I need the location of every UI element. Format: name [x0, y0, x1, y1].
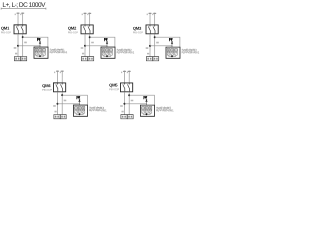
- junction on L+ wire: [84, 45, 86, 47]
- wire label 3: [82, 53, 84, 55]
- wire label 2: [156, 42, 159, 44]
- wire L+ from bus to QM1: [17, 13, 19, 25]
- pin label 1: [82, 14, 83, 16]
- pin label 3: [127, 72, 128, 74]
- SPD module 2: [78, 107, 81, 110]
- terminal connector XC5b: [127, 115, 133, 119]
- junction on L- wire: [154, 36, 156, 38]
- surge protective device FV2 box: [101, 47, 115, 58]
- QM4 pole 2 blade: [60, 83, 62, 92]
- wire L- from bus to QM2: [89, 13, 91, 25]
- PE arrow to earth: [39, 41, 41, 43]
- svg-text:QM3: QM3: [133, 26, 142, 31]
- terminal connector XC1a: [14, 57, 20, 61]
- disconnector QM3 box: [146, 25, 158, 34]
- wire L- below QM2: [89, 34, 91, 57]
- SPD module 3: [175, 49, 178, 52]
- svg-text:P80-D2P: P80-D2P: [1, 31, 11, 34]
- SPD common bar: [169, 55, 177, 57]
- bus tap tick L+ (QM2): [84, 12, 87, 14]
- wire label 1: [53, 105, 56, 107]
- junction on L- wire: [61, 94, 63, 96]
- surge protective device FV3 box: [166, 47, 180, 58]
- branch wire L+ to SPD: [124, 103, 146, 105]
- wire L+ below QM3: [149, 34, 151, 57]
- wire L- from bus to QM4: [61, 71, 63, 83]
- QM4 pole 1 blade: [56, 83, 58, 92]
- bus tap tick L+ (QM1): [17, 12, 20, 14]
- QM3 pole 2 blade: [153, 25, 155, 34]
- svg-text:QM1: QM1: [1, 26, 10, 31]
- junction on L- wire: [89, 36, 91, 38]
- wire L+ from bus to QM2: [84, 13, 86, 25]
- branch wire L- to SPD: [90, 37, 115, 47]
- wire label 1: [81, 47, 84, 49]
- junction on L+ wire: [56, 103, 58, 105]
- terminal connector XC3a: [146, 57, 152, 61]
- busbar bracket: [1, 8, 46, 10]
- disconnector QM1 box: [14, 25, 26, 34]
- surge protective device FV1 box: [34, 47, 48, 58]
- pin label 1: [147, 14, 148, 16]
- terminal connector XC4a: [54, 115, 60, 119]
- PE arrow to earth: [106, 41, 108, 43]
- surge protective device FV4 box: [73, 105, 87, 116]
- bus tap tick L- (QM1): [21, 12, 24, 14]
- svg-text:P80-D2P: P80-D2P: [42, 89, 52, 92]
- SPD module 2: [145, 107, 148, 110]
- SPD earth junction: [79, 113, 81, 115]
- QM5 pole 1 blade: [123, 83, 125, 92]
- SPD common bar: [76, 113, 84, 115]
- svg-text:FLP-PV550 V/3S 1: FLP-PV550 V/3S 1: [182, 50, 200, 54]
- junction on L- wire: [22, 36, 24, 38]
- terminal connector XC2a: [81, 57, 87, 61]
- terminal connector XC4b: [60, 115, 66, 119]
- SPD module 1: [35, 49, 38, 52]
- wire L- from bus to QM1: [22, 13, 24, 25]
- SPD common bar: [37, 55, 45, 57]
- pin label 1: [54, 72, 55, 74]
- SPD module 3: [110, 49, 113, 52]
- bus tap tick L+ (QM5): [123, 70, 126, 72]
- QM1 pole 2 blade: [21, 25, 23, 34]
- SPD module 3: [82, 107, 85, 110]
- wire label 2: [131, 100, 134, 102]
- pin label 1: [15, 14, 16, 16]
- junction on L- wire: [128, 94, 130, 96]
- terminal connector XC2b: [88, 57, 94, 61]
- PE lead: [145, 102, 147, 106]
- svg-text:P80-D2P: P80-D2P: [109, 88, 119, 91]
- wire L- below QM4: [61, 92, 63, 115]
- SPD module 3: [149, 107, 152, 110]
- SPD common bar: [104, 55, 112, 57]
- bus tap tick L- (QM4): [61, 70, 64, 72]
- PE lead: [106, 44, 108, 48]
- bus tap tick L- (QM2): [88, 12, 91, 14]
- wire L+ from bus to QM4: [56, 71, 58, 83]
- SPD earth junction: [106, 55, 108, 57]
- branch wire L- to SPD: [62, 95, 87, 105]
- wire label 3: [121, 111, 123, 113]
- branch wire L+ to SPD: [150, 45, 172, 47]
- branch wire L+ to SPD: [18, 45, 40, 47]
- QM3 pole 1 blade: [148, 25, 150, 34]
- junction on L+ wire: [149, 45, 151, 47]
- wire L+ below QM4: [56, 92, 58, 115]
- disconnector QM5 box: [120, 83, 132, 92]
- SPD module 1: [167, 49, 170, 52]
- SPD module 1: [142, 107, 145, 110]
- SPD module 2: [171, 49, 174, 52]
- bus tap tick L- (QM5): [128, 70, 131, 72]
- svg-text:QM5: QM5: [109, 83, 118, 88]
- SPD earth junction: [146, 113, 148, 115]
- PE label: [144, 96, 147, 99]
- wire L+ below QM1: [17, 34, 19, 57]
- svg-text:P80-D2P: P80-D2P: [68, 31, 78, 34]
- branch wire L- to SPD: [129, 95, 154, 105]
- branch wire L+ to SPD: [85, 45, 107, 47]
- SPD module 1: [75, 107, 78, 110]
- wire label 1: [14, 47, 17, 49]
- PE lead: [171, 44, 173, 48]
- SPD module 2: [106, 49, 109, 52]
- SPD earth junction: [171, 55, 173, 57]
- branch wire L- to SPD: [23, 37, 48, 47]
- QM2 pole 1 blade: [83, 25, 85, 34]
- PE arrow to earth: [171, 41, 173, 43]
- svg-text:FLP-PV550 V/3S 1: FLP-PV550 V/3S 1: [89, 108, 107, 112]
- disconnector QM2 box: [81, 25, 93, 34]
- PE lead: [39, 43, 41, 47]
- terminal connector XC3b: [153, 57, 159, 61]
- wire label 3: [15, 53, 17, 55]
- wire L- from bus to QM5: [128, 71, 130, 83]
- bus tap tick L+ (QM4): [56, 70, 59, 72]
- wire L- below QM1: [22, 34, 24, 57]
- wire label 3: [54, 111, 56, 113]
- svg-text:QM2: QM2: [68, 26, 77, 31]
- wire label 3: [147, 53, 149, 55]
- wire L- below QM3: [154, 34, 156, 57]
- PE lead: [78, 101, 80, 105]
- PE arrow to earth: [78, 99, 80, 101]
- svg-text:FLP-PV550 V/3S 1: FLP-PV550 V/3S 1: [156, 108, 174, 112]
- surge protective device FV5 box: [140, 105, 154, 116]
- wire L- below QM5: [128, 92, 130, 115]
- QM5 pole 2 blade: [127, 83, 129, 92]
- QM2 pole 2 blade: [88, 25, 90, 34]
- svg-text:FLP-PV550 V/3S 1: FLP-PV550 V/3S 1: [50, 50, 68, 54]
- wire label 1: [120, 105, 123, 107]
- wire label 1: [146, 47, 149, 49]
- disconnector QM4 box: [53, 83, 65, 92]
- junction on L+ wire: [123, 103, 125, 105]
- branch wire L+ to SPD: [57, 103, 79, 105]
- SPD earth junction: [39, 55, 41, 57]
- terminal connector XC5a: [121, 115, 127, 119]
- bus tap tick L- (QM3): [153, 12, 156, 14]
- PE arrow to earth: [145, 99, 147, 101]
- PE label: [104, 38, 107, 41]
- PE label: [37, 38, 40, 41]
- PE label: [77, 96, 80, 99]
- bus tap tick L+ (QM3): [149, 12, 152, 14]
- terminal connector XC1b: [21, 57, 27, 61]
- pin label 1: [121, 72, 122, 74]
- QM1 pole 1 blade: [16, 25, 18, 34]
- wire label 2: [91, 42, 94, 44]
- junction on L+ wire: [17, 45, 19, 47]
- SPD common bar: [143, 113, 151, 115]
- pin label 3: [20, 14, 21, 16]
- wire L+ below QM5: [123, 92, 125, 115]
- wire L- from bus to QM3: [154, 13, 156, 25]
- wire L+ from bus to QM5: [123, 71, 125, 83]
- PE label: [169, 38, 172, 41]
- SPD module 1: [102, 49, 105, 52]
- pin label 3: [152, 14, 153, 16]
- SPD module 2: [39, 49, 42, 52]
- svg-text:FLP-PV550 V/3S 1: FLP-PV550 V/3S 1: [117, 50, 135, 54]
- wire label 2: [24, 42, 27, 44]
- pin label 3: [87, 14, 88, 16]
- wire label 2: [64, 100, 67, 102]
- SPD module 3: [43, 49, 46, 52]
- svg-text:L+, L-; DC 1000V: L+, L-; DC 1000V: [2, 2, 46, 9]
- svg-text:P80-D2P: P80-D2P: [133, 31, 143, 34]
- svg-text:QM4: QM4: [42, 83, 51, 88]
- branch wire L- to SPD: [155, 37, 180, 47]
- wire L+ below QM2: [84, 34, 86, 57]
- pin label 3: [60, 72, 61, 74]
- wire L+ from bus to QM3: [149, 13, 151, 25]
